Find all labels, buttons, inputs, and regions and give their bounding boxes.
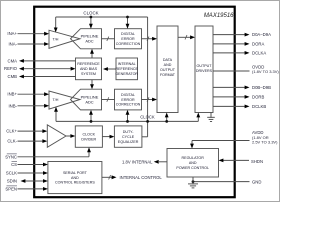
svg-text:AND BIAS: AND BIAS [80,67,98,71]
svg-text:CYCLE: CYCLE [122,135,135,139]
svg-text:DCLKA: DCLKA [252,51,266,56]
svg-text:SPEN: SPEN [5,186,17,191]
svg-text:1.8V INTERNAL: 1.8V INTERNAL [122,159,153,164]
svg-text:ERROR: ERROR [121,37,135,41]
svg-text:INB-: INB- [9,103,18,108]
svg-text:AND: AND [164,63,172,67]
svg-text:(1.8V TO 3.3V): (1.8V TO 3.3V) [252,69,279,74]
svg-text:DCLKB: DCLKB [252,104,266,109]
svg-text:AND: AND [189,161,197,165]
svg-text:CMB: CMB [8,74,18,79]
svg-text:GND: GND [252,179,261,184]
svg-text:POWER CONTROL: POWER CONTROL [176,166,209,170]
svg-text:REFERENCE: REFERENCE [77,62,100,66]
svg-text:SERIAL PORT: SERIAL PORT [63,171,88,175]
svg-text:T/H: T/H [53,38,59,42]
svg-text:DIGITAL: DIGITAL [121,93,135,97]
svg-text:D0B–D9B: D0B–D9B [252,85,271,90]
svg-text:AVDD: AVDD [252,130,264,135]
svg-text:REGULATOR: REGULATOR [182,156,205,160]
svg-text:SYNC: SYNC [5,154,17,159]
svg-text:DIGITAL: DIGITAL [121,32,135,36]
svg-text:REFIO: REFIO [4,66,18,71]
svg-text:AND: AND [71,176,79,180]
svg-text:ADC: ADC [85,99,93,104]
svg-text:SDIN: SDIN [7,179,17,184]
svg-text:REFERENCE: REFERENCE [115,67,138,71]
svg-text:DORA: DORA [252,42,264,47]
svg-text:CLK+: CLK+ [6,129,17,134]
svg-text:T/H: T/H [53,98,59,102]
svg-text:CLOCK: CLOCK [140,114,155,119]
svg-text:INB+: INB+ [7,92,17,97]
svg-text:D0A–D9A: D0A–D9A [252,32,271,37]
svg-text:2.5V TO 3.3V): 2.5V TO 3.3V) [252,140,278,145]
svg-text:CLK-: CLK- [7,139,17,144]
svg-text:DATA: DATA [163,58,173,62]
svg-text:CORRECTION: CORRECTION [116,42,141,46]
svg-text:GENERATOR: GENERATOR [115,72,138,76]
svg-text:MAX19516: MAX19516 [204,13,234,19]
svg-text:INA-: INA- [9,42,18,47]
svg-text:DUTY-: DUTY- [123,130,135,134]
svg-text:INTERNAL: INTERNAL [118,62,136,66]
svg-text:CORRECTION: CORRECTION [116,103,141,107]
svg-text:CONTROL REGISTERS: CONTROL REGISTERS [55,181,95,185]
svg-text:ADC: ADC [85,39,93,44]
svg-text:OUTPUT: OUTPUT [160,68,176,72]
svg-text:OUTPUT: OUTPUT [197,64,213,68]
svg-text:SHDN: SHDN [251,159,263,164]
svg-text:SYSTEM: SYSTEM [81,72,96,76]
svg-text:DORB: DORB [252,95,264,100]
svg-text:DIVIDER: DIVIDER [81,137,96,141]
svg-text:FORMAT: FORMAT [160,73,176,77]
svg-text:CLOCK: CLOCK [83,10,98,15]
svg-text:INA+: INA+ [7,31,17,36]
svg-text:EQUALIZER: EQUALIZER [118,140,139,144]
svg-text:ERROR: ERROR [121,98,135,102]
svg-text:CLOCK: CLOCK [83,132,96,136]
svg-text:CMA: CMA [8,58,18,63]
svg-text:DRIVERS: DRIVERS [196,69,213,73]
svg-text:INTERNAL CONTROL: INTERNAL CONTROL [120,175,163,180]
svg-text:SCLK: SCLK [6,171,17,176]
svg-text:CS: CS [11,162,17,167]
